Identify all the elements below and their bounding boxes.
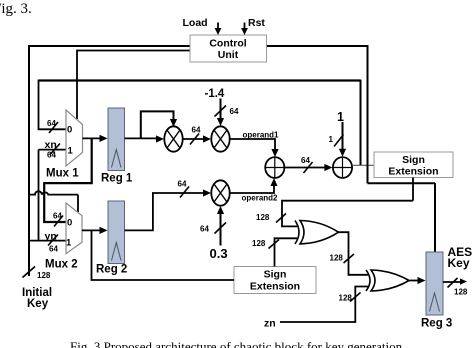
svg-text:1: 1 bbox=[329, 135, 334, 144]
slash mux2 input0 64 bbox=[54, 216, 63, 227]
wire signext bottom top pin to xor1 bottom input bbox=[275, 238, 298, 266]
svg-text:1: 1 bbox=[337, 110, 344, 124]
svg-text:Mux 2: Mux 2 bbox=[45, 259, 78, 271]
wire xor2 output to reg3 bbox=[410, 280, 420, 282]
svg-text:128: 128 bbox=[37, 271, 51, 280]
svg-text:operand2: operand2 bbox=[242, 194, 279, 203]
wire feedback left drop x=38.5 to mux1 input0 bbox=[39, 80, 66, 130]
wire yn into mux2 input1 y=240.6 bbox=[29, 240, 66, 242]
sign extension box right U3 bbox=[374, 152, 453, 178]
svg-text:Fig. 3 Proposed architecture: Fig. 3 Proposed architecture of chaotic … bbox=[70, 339, 403, 348]
wire sign extension link y=183.2 bbox=[368, 182, 436, 184]
svg-text:yn: yn bbox=[45, 231, 57, 243]
slash 128 AES key bbox=[448, 278, 458, 288]
wire adder2 output to sign extension bbox=[352, 164, 374, 166]
slash 64 mult1 out bbox=[190, 134, 199, 145]
wire xn riser x=38.5 bbox=[38, 150, 40, 241]
wire feedback horizontal y=80.5 bbox=[39, 79, 361, 81]
svg-text:64: 64 bbox=[200, 225, 209, 234]
svg-text:128: 128 bbox=[330, 254, 344, 263]
arrow rst into control unit bbox=[244, 23, 246, 29]
register R1 bbox=[108, 108, 125, 171]
svg-text:-1.4: -1.4 bbox=[205, 88, 225, 100]
svg-text:64: 64 bbox=[301, 156, 310, 165]
wire feedback right drop x=360.5 to adder2 output bbox=[360, 80, 362, 166]
wire 1 into adder2 top bbox=[342, 122, 344, 150]
xor gate X4 bbox=[295, 221, 339, 244]
svg-text:Reg 1: Reg 1 bbox=[101, 173, 133, 185]
wire mult1 to mult2 bbox=[183, 138, 204, 140]
svg-text:64: 64 bbox=[49, 245, 58, 254]
svg-text:Extension: Extension bbox=[250, 281, 300, 293]
wire mux2 input0 branch from mux1 output bbox=[44, 138, 91, 222]
slash 64 mult3 in bbox=[180, 187, 189, 198]
svg-text:Key: Key bbox=[448, 256, 470, 270]
wire xn into mux1 input1 y=149.6 bbox=[39, 149, 66, 151]
slash 64 adder1 out bbox=[304, 162, 313, 173]
wire mux2 select drop x=78 bbox=[77, 195, 79, 212]
adder A2 bbox=[333, 157, 352, 178]
svg-text:0: 0 bbox=[67, 125, 72, 136]
wire adder1 to adder2 bbox=[284, 167, 326, 169]
wire feedback right top drop x=367.5 bbox=[367, 45, 369, 183]
clock chevron reg2 bbox=[112, 243, 122, 261]
slash mux1 input0 64 bbox=[49, 122, 58, 133]
slash 128 xor1 top bbox=[276, 214, 286, 223]
svg-text:zn: zn bbox=[264, 318, 276, 330]
multiplier X3 bbox=[211, 180, 229, 205]
wire mux1 select horizontal y=50.5 bbox=[77, 50, 190, 52]
wire signext pin down x=413 to xor1 line bbox=[412, 178, 414, 201]
wire reg1 output branch to mult1 top bbox=[141, 111, 174, 138]
wire reg2 output to mult3 bbox=[125, 193, 205, 230]
svg-text:Load: Load bbox=[183, 17, 208, 29]
wire zn to xor2 bottom input bbox=[280, 287, 368, 323]
svg-text:64: 64 bbox=[192, 126, 201, 135]
svg-text:Key: Key bbox=[27, 298, 49, 310]
svg-text:64: 64 bbox=[230, 107, 239, 116]
slash yn 64 bbox=[48, 235, 58, 246]
svg-text:Reg 2: Reg 2 bbox=[96, 264, 127, 276]
multiplier X2 bbox=[211, 126, 229, 151]
wire reg1 output to mult1 bbox=[125, 137, 158, 139]
register R2 bbox=[108, 201, 125, 264]
arrow load into control unit bbox=[217, 23, 219, 29]
wire reg3 output AES key bbox=[443, 281, 460, 283]
mux M2 trapezoid bbox=[66, 203, 82, 254]
slash 128 xor2 bottom bbox=[350, 293, 361, 302]
svg-text:Rst: Rst bbox=[248, 17, 265, 29]
wire mult3 output operand2 to adder1 bottom bbox=[230, 185, 274, 193]
wire feedback loop top y=46 bbox=[29, 45, 368, 47]
svg-text:Unit: Unit bbox=[218, 49, 239, 61]
adder A1 bbox=[265, 157, 284, 178]
xor gate X5 bbox=[366, 270, 409, 291]
svg-text:operand1: operand1 bbox=[243, 131, 280, 140]
svg-text:Sign: Sign bbox=[264, 269, 287, 281]
slash initial key 128 bbox=[23, 267, 36, 278]
svg-text:1: 1 bbox=[66, 238, 72, 249]
svg-text:0: 0 bbox=[67, 218, 72, 229]
slash xn 64 bbox=[50, 144, 60, 155]
svg-text:64: 64 bbox=[47, 151, 56, 160]
slash 128 xor2 top bbox=[344, 254, 355, 263]
wire mux1 output to reg1 bbox=[83, 137, 101, 139]
wire 0.3 into mult3 bottom bbox=[220, 213, 222, 246]
mux M1 trapezoid bbox=[66, 110, 83, 166]
svg-text:64: 64 bbox=[47, 119, 56, 128]
register R3 bbox=[426, 252, 443, 315]
wire y=200.7 to xor1 top input bbox=[282, 201, 413, 227]
svg-text:64: 64 bbox=[53, 212, 62, 221]
svg-text:128: 128 bbox=[339, 294, 353, 303]
svg-text:Reg 3: Reg 3 bbox=[421, 318, 452, 330]
slash 128 xor1 bottom bbox=[269, 240, 280, 249]
svg-text:Sign: Sign bbox=[402, 154, 425, 166]
svg-text:64: 64 bbox=[178, 180, 187, 189]
clock chevron reg1 bbox=[112, 150, 122, 168]
slash 64 on -1.4 wire bbox=[215, 106, 227, 117]
wire x=435 down to reg3 top bbox=[434, 183, 436, 252]
sign extension box bottom U4 bbox=[234, 267, 316, 294]
wire mult2 output operand1 to adder1 top bbox=[230, 139, 275, 150]
svg-text:128: 128 bbox=[252, 239, 266, 248]
svg-text:0.3: 0.3 bbox=[210, 246, 228, 261]
slash 64 on 0.3 wire bbox=[215, 223, 227, 234]
svg-text:128: 128 bbox=[454, 288, 468, 297]
svg-text:Control: Control bbox=[209, 38, 246, 50]
wire -1.4 into mult2 top bbox=[220, 99, 222, 120]
control unit CU box bbox=[190, 35, 267, 62]
wire mux2 output to reg2 bbox=[82, 229, 100, 231]
clock chevron reg3 bbox=[430, 293, 440, 312]
wire xor1 output to xor2 top input bbox=[339, 232, 369, 275]
slash 1 on constant wire bbox=[334, 135, 344, 147]
wire mux2 select horizontal y=194.6 with hops bbox=[29, 191, 78, 194]
svg-text:Fig. 3.: Fig. 3. bbox=[0, 1, 32, 17]
svg-text:1: 1 bbox=[68, 146, 74, 157]
svg-text:Mux 1: Mux 1 bbox=[46, 168, 79, 180]
svg-text:128: 128 bbox=[256, 213, 270, 222]
svg-text:xn: xn bbox=[45, 139, 57, 151]
wire left outer vertical x=29 bbox=[28, 45, 30, 276]
wire mux1 select drop x=77 bbox=[76, 50, 78, 119]
svg-text:Extension: Extension bbox=[388, 166, 438, 178]
wire reg2 input branch to sign extension bottom bbox=[92, 230, 235, 280]
multiplier X1 bbox=[164, 126, 182, 151]
